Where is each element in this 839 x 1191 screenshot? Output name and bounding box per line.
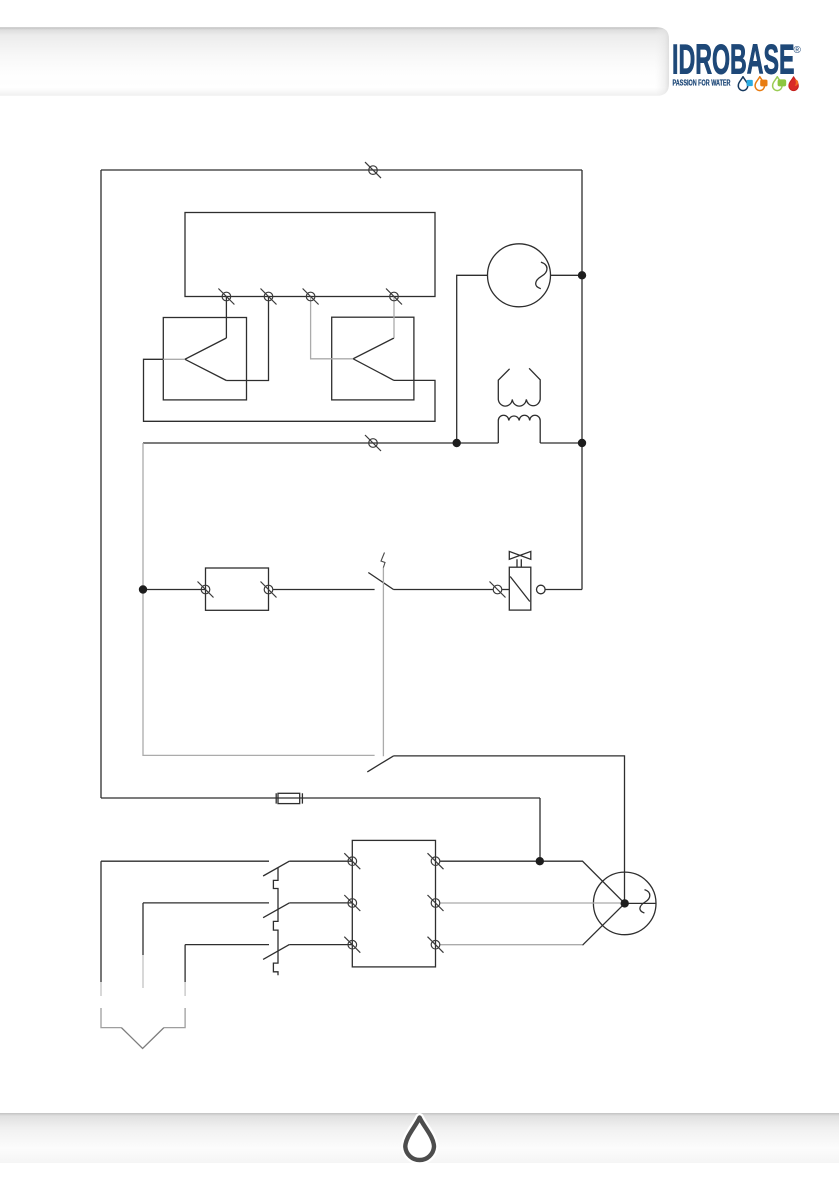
- terminal relay K2 right: [261, 582, 277, 598]
- wire: phase L3 drop fade: [184, 982, 186, 996]
- terminal KM1 L2: [344, 895, 360, 911]
- terminal X2: [261, 289, 277, 305]
- wire: contactor output phase 3 (gray part): [440, 944, 583, 946]
- pressure switch box S1: [163, 318, 246, 400]
- terminal X0 top line: [365, 162, 381, 178]
- relay coil box K2: [206, 568, 269, 610]
- valve Y1 stem: [517, 559, 521, 567]
- valve Y1 diagonal: [510, 577, 530, 602]
- terminal X5 valve feed: [490, 582, 506, 598]
- breaker Q1 pole 3 blade: [263, 945, 289, 960]
- terminal KM1 T1: [428, 853, 444, 869]
- switch S1 contact chevron: [185, 338, 227, 381]
- wire: bottom rail right part: [540, 442, 582, 444]
- wire: long gray control feed (left column): [143, 443, 375, 755]
- wire: terminal 1 drop into S1: [225, 297, 227, 339]
- motor M1 winding squiggle: [536, 262, 547, 289]
- transformer TR primary (angled leads and scallops): [498, 368, 540, 406]
- wire: phase L2 incoming: [143, 902, 269, 904]
- terminal relay K2 left: [198, 582, 214, 598]
- wire: S1 entry segment (inside box): [163, 358, 185, 360]
- wire: phase L1 drop fade: [100, 982, 102, 996]
- wire: phase L3 left drop: [184, 945, 186, 982]
- wire: motor M1 right lead: [551, 274, 583, 276]
- logo icon drop 3 (green): [773, 77, 787, 91]
- wire: pole 1 to contactor: [289, 860, 352, 862]
- gray wires: [101, 297, 621, 997]
- switch S2 contact chevron: [353, 338, 394, 380]
- terminal X4: [386, 289, 402, 305]
- breaker Q1 pole 1 blade: [263, 861, 289, 876]
- wire: motor M2 center to right rim: [625, 902, 656, 904]
- valve Y1 bowtie: [509, 551, 531, 559]
- wire: phase L2 left drop: [142, 903, 144, 955]
- terminals (circle + slash): [198, 162, 506, 953]
- wire: contact to terminal X5: [394, 589, 494, 591]
- footer droplet icon: [405, 1118, 434, 1161]
- wire: contactor output phase 3 diagonal: [583, 903, 625, 945]
- wire: valve Y1 to right vertical bus: [545, 589, 582, 591]
- wire: terminal 3 drop to S2 contact: [311, 297, 354, 359]
- logo icon drop 1 (blue): [738, 77, 752, 91]
- wire: phase L1 left drop: [100, 861, 102, 982]
- motor M2 winding squiggle: [640, 890, 650, 913]
- wire: fuse line: [101, 797, 540, 799]
- motor M1 (pump motor, single phase): [488, 244, 551, 307]
- wire: terminal 4 drop to S2: [393, 297, 395, 339]
- node: left column / relay feed: [139, 585, 147, 593]
- wire: pole 3 to contactor: [289, 944, 352, 946]
- wire: terminal 2 drop and link to S1 lower contact: [226, 297, 268, 381]
- wire: pole 2 to contactor: [289, 902, 352, 904]
- logo icon drop 4 (red): [789, 77, 798, 91]
- wire: phase L1 incoming: [101, 860, 269, 862]
- breaker Q1 linkage bar with notches: [273, 868, 278, 975]
- node: motor M1 / right bus: [578, 271, 586, 279]
- node: bottom rail / right bus: [578, 439, 586, 447]
- pressure switch box S2: [332, 317, 414, 400]
- wire: left outer vertical (down to fuse line): [100, 170, 102, 798]
- logo icon drop 2 (orange): [755, 77, 767, 91]
- terminal X6 bottom rail: [365, 435, 381, 451]
- wire: bottom rail left part (to transformer): [143, 442, 498, 444]
- wire: phase L3 incoming: [185, 944, 269, 946]
- transformer TR secondary coil: [498, 415, 540, 443]
- terminal KM1 T2: [428, 895, 444, 911]
- wire: fuse line drop to phase 1: [539, 798, 541, 861]
- svg-text:®: ®: [794, 45, 802, 56]
- wire: right vertical bus: [581, 170, 583, 590]
- valve Y1 right terminal circle: [537, 585, 546, 594]
- terminal KM1 L1: [344, 853, 360, 869]
- header bar right edge shading: [655, 27, 669, 96]
- breaker Q1 pole 2 blade: [263, 903, 289, 918]
- wire: series loop below switch boxes: [144, 359, 436, 421]
- wire: top supply line: [101, 169, 582, 171]
- wire: contactor output phase 2 (gray): [440, 902, 621, 904]
- wire: terminal X5 to valve Y1: [502, 589, 510, 591]
- terminal KM1 T3: [428, 937, 444, 953]
- wire: motor M1 left lead down to bottom rail: [457, 275, 488, 443]
- svg-text:IDROBASE: IDROBASE: [672, 36, 795, 83]
- terminal X1: [218, 289, 234, 305]
- node: fuse drop / phase 1: [536, 857, 544, 865]
- wire: lower switch output to motor M2: [394, 756, 625, 904]
- motor M2 (three phase): [593, 872, 656, 935]
- terminal KM1 L3: [344, 937, 360, 953]
- wire: switch actuator linkage vertical: [382, 567, 384, 756]
- svg-text:PASSION FOR WATER: PASSION FOR WATER: [673, 78, 731, 87]
- terminal X3: [303, 289, 319, 305]
- node: motor M2 star point: [621, 899, 629, 907]
- wire: from junction to relay K2: [143, 589, 206, 591]
- wire: contactor output phase 1 to motor M2: [440, 861, 625, 903]
- fuse F1: [278, 793, 300, 803]
- supply cable V-arrow: [101, 1008, 185, 1049]
- control board box K1: [185, 213, 435, 297]
- lower switch blade: [367, 756, 393, 772]
- footer droplet icon halo: [405, 1118, 434, 1161]
- wire: relay K2 to pressure contact: [273, 589, 375, 591]
- wire: phase L2 drop fade: [142, 955, 144, 988]
- contactor box KM1: [352, 840, 435, 967]
- solenoid valve Y1 body: [509, 567, 531, 610]
- node: bottom rail / motor M1 lead: [453, 439, 461, 447]
- footer bar: [0, 1113, 839, 1163]
- pressure contact blade (upper switch): [368, 573, 393, 590]
- actuator zigzag at top of linkage: [381, 553, 385, 568]
- header bar: [0, 27, 669, 96]
